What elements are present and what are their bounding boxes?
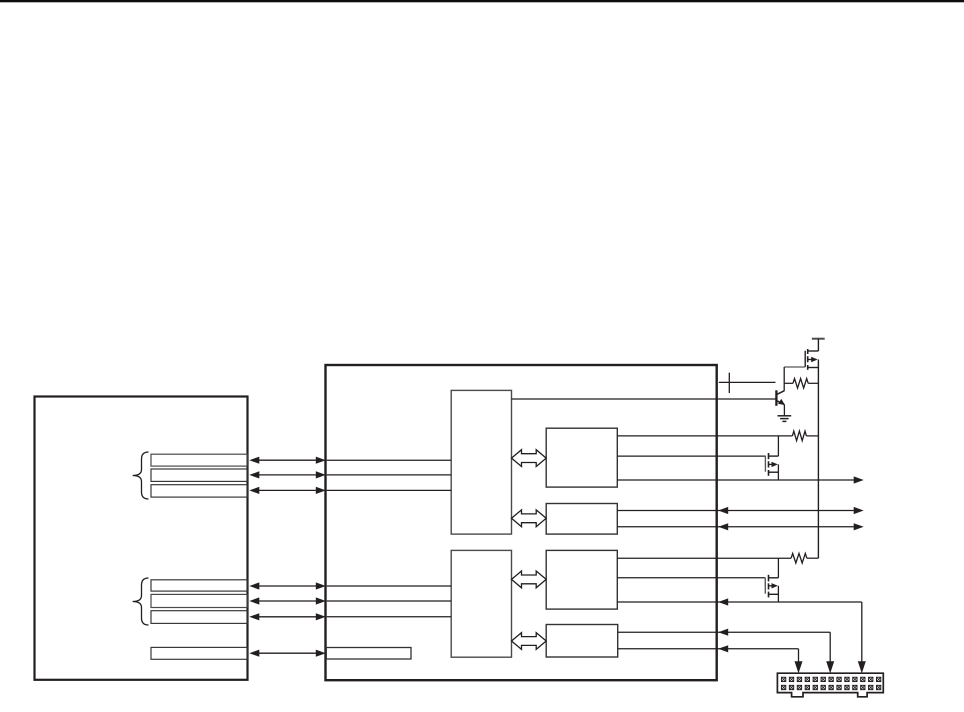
host controller block xyxy=(35,397,248,680)
wire channel A long output xyxy=(617,479,854,481)
wire right rail xyxy=(817,360,819,559)
resistor R3 xyxy=(791,553,807,563)
brace lower bus group xyxy=(133,578,149,625)
wire bus arrow 3 xyxy=(252,489,322,491)
interface logic block 1 (tall) xyxy=(451,390,511,534)
wire internal bus lower 1 xyxy=(327,585,452,587)
supply rail stub xyxy=(812,338,825,340)
wire channel C out (to R3) xyxy=(617,557,791,559)
register rect (bottom left of IC) xyxy=(326,648,411,660)
ground xyxy=(778,415,792,417)
bus label rect 2 xyxy=(151,469,247,481)
resistor R2 xyxy=(792,431,806,441)
wire BJT base line xyxy=(512,398,776,400)
bus label rect 4 xyxy=(151,580,247,591)
wire channel B line 2 xyxy=(617,526,854,528)
wire channel A out (to R2) xyxy=(617,435,792,437)
bus label rect 3 xyxy=(151,485,247,497)
resistor R1 xyxy=(784,382,793,384)
channel box C xyxy=(546,550,617,609)
wire gate lead Q2 xyxy=(617,455,765,457)
wire bus arrow 4 xyxy=(252,585,322,587)
connector J1 outline xyxy=(777,673,883,697)
fat bidirectional arrow 2 xyxy=(512,510,547,527)
fat bidirectional arrow 1 xyxy=(512,450,547,467)
wire channel C output to connector xyxy=(617,601,862,603)
wire gate/collector node xyxy=(783,367,785,391)
main IC block xyxy=(326,365,717,680)
wire channel D line 2 to connector xyxy=(618,648,799,650)
fat bidirectional arrow 4 xyxy=(512,633,547,650)
bus label rect 6 xyxy=(151,611,247,624)
wire drain to supply xyxy=(817,339,819,351)
wire channel D line 1 to connector xyxy=(618,631,830,633)
channel box B xyxy=(546,504,617,535)
brace upper bus group xyxy=(133,452,149,499)
wire internal bus upper 1 xyxy=(327,459,452,461)
wire bus arrow 2 xyxy=(252,474,322,476)
control label rect 7 xyxy=(151,647,247,659)
wire bus arrow 6 xyxy=(252,616,322,618)
fat bidirectional arrow 3 xyxy=(512,571,547,588)
transistor Q4 (NPN BJT) xyxy=(775,390,777,406)
wire bus arrow 5 xyxy=(252,600,322,602)
wire internal bus lower 2 xyxy=(327,600,452,602)
channel box A xyxy=(546,428,617,487)
bus label rect 1 xyxy=(151,454,247,466)
transistor Q2 (N-MOSFET) xyxy=(777,436,779,456)
capacitor C1 (cross symbol) xyxy=(719,381,776,383)
transistor Q1 (P-MOSFET) xyxy=(808,350,819,352)
wire internal bus lower 3 xyxy=(327,616,452,618)
wire internal bus upper 3 xyxy=(327,489,452,491)
wire internal bus upper 2 xyxy=(327,474,452,476)
interface logic block 2 (tall) xyxy=(451,550,511,657)
top rule xyxy=(0,0,964,2)
transistor Q3 (N-MOSFET) xyxy=(777,558,779,578)
wire bus arrow 7 xyxy=(252,652,322,654)
connector J1 pins xyxy=(781,677,785,681)
channel box D xyxy=(546,625,618,658)
bus label rect 5 xyxy=(151,594,247,607)
wire gate lead Q3 xyxy=(617,577,765,579)
wire bus arrow 1 xyxy=(252,459,322,461)
wire channel B line 1 xyxy=(617,510,854,512)
